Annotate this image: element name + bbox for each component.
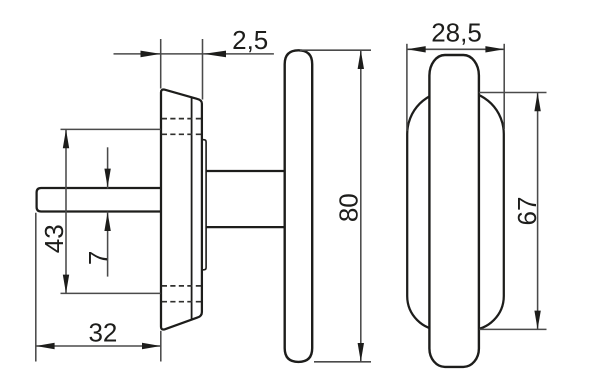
svg-text:67: 67 bbox=[512, 197, 542, 226]
dimension 43 arrow bottom bbox=[63, 275, 69, 294]
dimension 7 line upper segment bbox=[107, 147, 109, 188]
rosette (tapered, side view) bbox=[161, 90, 202, 330]
dimension 32 extension line right bbox=[160, 331, 162, 362]
dimension 67 extension line top bbox=[479, 92, 547, 94]
dimension 80 arrow top bbox=[358, 50, 364, 69]
dimension 2,5 extension line left bbox=[160, 39, 162, 89]
dimension 80 arrow bottom bbox=[358, 343, 364, 362]
dimension 43 arrow top bbox=[63, 129, 69, 148]
dimension 32 line bbox=[36, 345, 161, 347]
svg-text:80: 80 bbox=[333, 193, 363, 222]
dimension 80 extension line top bbox=[300, 49, 371, 51]
svg-text:7: 7 bbox=[83, 251, 113, 265]
dimension 43 line bbox=[65, 129, 67, 293]
spindle (square shaft, side view) bbox=[37, 188, 162, 212]
dimension 2,5 line bbox=[114, 53, 274, 55]
dimension 67 arrow bottom bbox=[534, 311, 540, 330]
dimension 80 line bbox=[360, 50, 362, 362]
dimension 32 arrow right bbox=[142, 343, 161, 349]
dimension 43 extension line top bbox=[61, 128, 161, 130]
dimension 7 line lower segment bbox=[107, 212, 109, 277]
dimension 7 arrow up bbox=[104, 212, 110, 231]
dimension 7 arrow down bbox=[104, 169, 110, 188]
rosette hidden-detail dashed line 3 bbox=[162, 285, 201, 287]
rosette hidden-detail dashed line 2 bbox=[162, 133, 201, 135]
dimension 28,5 arrow right bbox=[485, 46, 504, 52]
dimension 67 arrow top bbox=[534, 93, 540, 112]
svg-text:28,5: 28,5 bbox=[431, 17, 482, 47]
dimension 32 arrow left bbox=[36, 343, 55, 349]
dimension 43 extension line bottom bbox=[61, 292, 161, 294]
svg-text:32: 32 bbox=[88, 317, 117, 347]
svg-text:43: 43 bbox=[39, 224, 69, 253]
svg-text:2,5: 2,5 bbox=[232, 25, 268, 55]
dimension 2,5 extension line right bbox=[202, 39, 204, 100]
rosette hidden-detail dashed line 1 bbox=[162, 118, 201, 120]
stem bottom edge (side view) bbox=[206, 226, 286, 228]
dimension 28,5 extension line left bbox=[406, 44, 408, 131]
neck plate behind stem (side view) bbox=[203, 140, 206, 270]
rosette hidden-detail dashed line 4 bbox=[162, 301, 201, 303]
dimension 80 extension line bottom bbox=[314, 361, 371, 363]
rosette taper inner edge line bbox=[191, 97, 193, 320]
stem top edge (side view) bbox=[206, 170, 286, 172]
grip bar (side view, stadium shape) bbox=[285, 50, 313, 362]
dimension 2,5 arrow left bbox=[141, 51, 161, 58]
grip bar (front view) bbox=[429, 55, 479, 367]
dimension 67 line bbox=[537, 93, 539, 330]
dimension 32 extension line left bbox=[35, 213, 37, 362]
dimension 28,5 arrow left bbox=[407, 46, 426, 52]
dimension 67 extension line bottom bbox=[480, 328, 547, 330]
dimension 2,5 arrow right bbox=[204, 51, 227, 58]
rosette (front view, rounded square) bbox=[407, 91, 504, 330]
dimension 28,5 line bbox=[407, 48, 504, 50]
dimension 28,5 extension line right bbox=[503, 44, 505, 129]
